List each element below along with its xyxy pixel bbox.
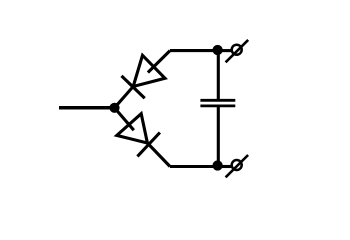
terminal P1 slash xyxy=(226,40,249,62)
wire bottom rail xyxy=(170,165,218,168)
diode D1 cathode bar xyxy=(122,76,145,98)
capacitor C1 top stub wire xyxy=(217,51,220,101)
wire input left xyxy=(59,106,115,110)
terminal P2 slash xyxy=(226,155,249,177)
terminal P2 circle xyxy=(232,160,242,170)
wire top rail xyxy=(170,49,218,52)
diode D2 triangle xyxy=(117,114,148,143)
capacitor C1 top plate xyxy=(200,99,235,102)
diode D2 anode lead xyxy=(115,108,134,130)
capacitor C1 bottom plate xyxy=(200,105,235,108)
terminal P1 circle xyxy=(232,45,242,55)
node bottom junction xyxy=(212,160,222,170)
diode D1 anode lead xyxy=(148,51,170,73)
diode D1 cathode lead xyxy=(115,87,134,108)
node junction A xyxy=(109,103,119,113)
diode D2 cathode bar xyxy=(137,133,160,157)
wire bottom terminal stub xyxy=(218,165,232,168)
diode D2 cathode lead xyxy=(147,143,170,167)
capacitor C1 bottom stub wire xyxy=(217,106,220,167)
node top junction xyxy=(212,45,222,55)
wire top terminal stub xyxy=(218,49,232,52)
diode D1 triangle xyxy=(133,55,165,86)
